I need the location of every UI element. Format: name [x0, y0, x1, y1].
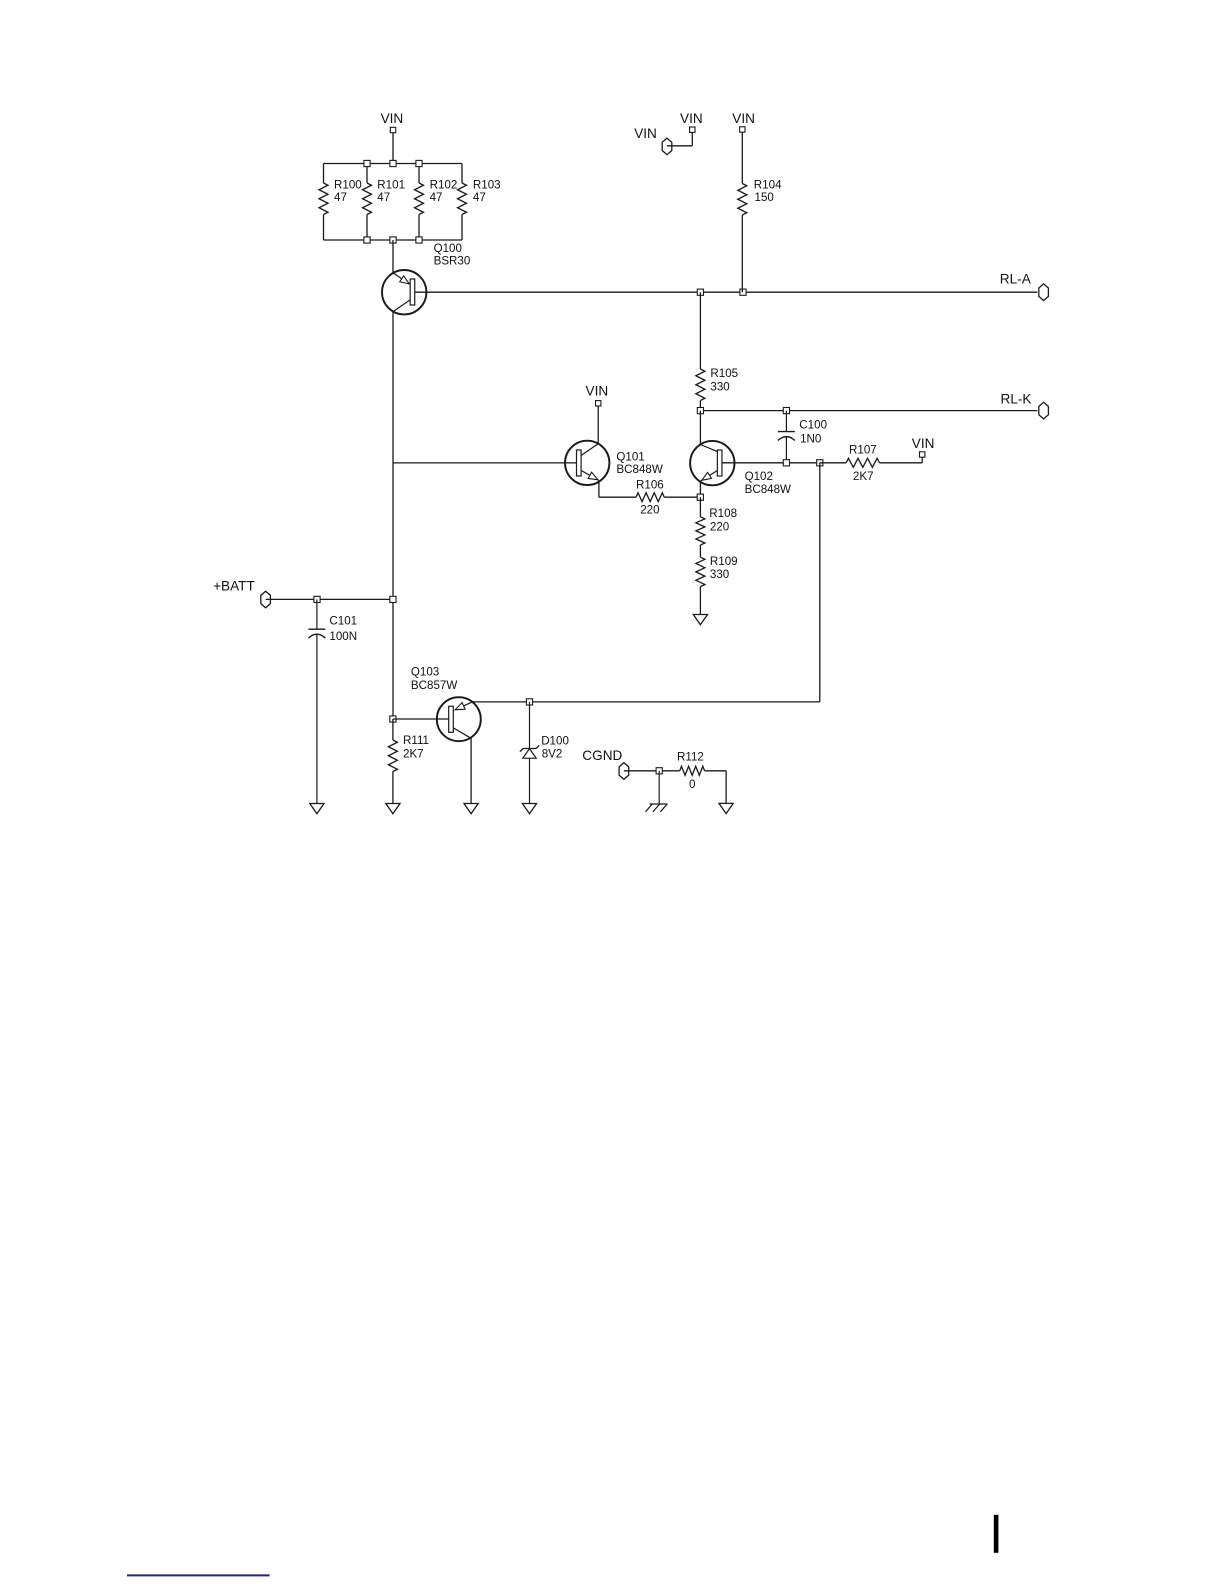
svg-text:R104: R104: [754, 179, 782, 192]
svg-text:D100: D100: [541, 735, 569, 748]
svg-text:330: 330: [710, 380, 729, 393]
svg-text:47: 47: [334, 191, 347, 204]
svg-text:R100: R100: [334, 179, 362, 192]
svg-text:VIN: VIN: [732, 111, 755, 126]
svg-text:Q101: Q101: [616, 451, 644, 464]
svg-text:R102: R102: [430, 179, 458, 192]
svg-text:8V2: 8V2: [542, 748, 563, 761]
svg-text:BC848W: BC848W: [745, 483, 791, 496]
svg-text:BSR30: BSR30: [434, 254, 471, 267]
svg-text:330: 330: [710, 568, 729, 581]
svg-text:+BATT: +BATT: [213, 578, 255, 593]
svg-text:220: 220: [640, 504, 659, 517]
svg-text:C100: C100: [799, 419, 827, 432]
svg-text:VIN: VIN: [912, 436, 935, 451]
svg-text:R108: R108: [709, 507, 737, 520]
svg-text:R103: R103: [473, 179, 501, 192]
svg-text:BC857W: BC857W: [411, 679, 457, 692]
svg-text:R111: R111: [403, 734, 429, 747]
svg-text:47: 47: [473, 191, 486, 204]
svg-text:R105: R105: [710, 367, 738, 380]
svg-text:R106: R106: [636, 478, 664, 491]
svg-text:RL-A: RL-A: [1000, 272, 1032, 287]
svg-text:220: 220: [710, 521, 729, 534]
svg-text:R107: R107: [849, 443, 877, 456]
svg-text:R109: R109: [710, 555, 738, 568]
svg-text:C101: C101: [329, 614, 357, 627]
svg-text:Q103: Q103: [411, 666, 439, 679]
svg-text:47: 47: [430, 191, 443, 204]
svg-text:R101: R101: [377, 179, 405, 192]
svg-text:Q102: Q102: [745, 470, 773, 483]
svg-text:R112: R112: [677, 751, 704, 764]
svg-text:RL-K: RL-K: [1001, 392, 1032, 407]
svg-text:VIN: VIN: [634, 126, 657, 141]
svg-text:Q100: Q100: [434, 242, 462, 255]
svg-text:VIN: VIN: [586, 384, 609, 399]
svg-text:0: 0: [689, 778, 695, 791]
svg-text:BC848W: BC848W: [616, 463, 662, 476]
svg-text:2K7: 2K7: [403, 748, 424, 761]
svg-text:47: 47: [377, 191, 390, 204]
svg-text:1N0: 1N0: [800, 433, 821, 446]
svg-text:VIN: VIN: [381, 111, 404, 126]
svg-text:150: 150: [755, 191, 774, 204]
svg-text:CGND: CGND: [582, 748, 622, 763]
svg-text:2K7: 2K7: [853, 470, 874, 483]
svg-text:VIN: VIN: [680, 111, 703, 126]
svg-text:100N: 100N: [329, 630, 357, 643]
